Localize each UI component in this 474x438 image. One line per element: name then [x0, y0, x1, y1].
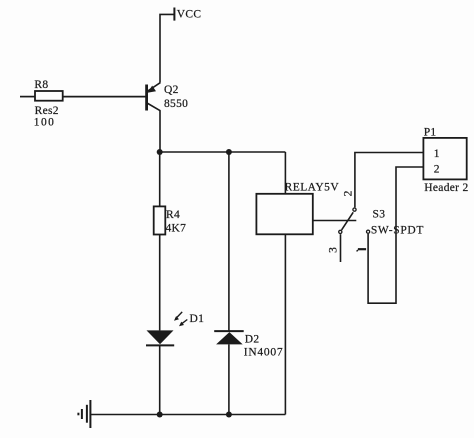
ground	[78, 400, 90, 428]
svg-text:Q2: Q2	[164, 84, 179, 96]
wire relay contact to switch	[313, 220, 357, 222]
header P1 Header 2	[423, 127, 468, 195]
node C junction dot	[157, 412, 163, 418]
svg-text:S3: S3	[373, 209, 386, 221]
wire header pin1 to switch pin2	[355, 153, 424, 208]
svg-text:4K7: 4K7	[166, 223, 187, 235]
relay RELAY5V	[256, 181, 339, 234]
wire R8 to Q2 base	[63, 96, 147, 98]
wire base stub left	[20, 96, 35, 98]
svg-text:Header 2: Header 2	[424, 182, 468, 194]
wire bottom rail	[90, 414, 285, 416]
node B junction dot	[226, 149, 232, 155]
svg-text:2: 2	[434, 164, 440, 176]
node A junction dot	[157, 149, 163, 155]
svg-text:D1: D1	[190, 313, 205, 325]
svg-text:2: 2	[343, 190, 355, 196]
wire switch pin3 stub	[340, 234, 342, 262]
wire D2 to bottom rail	[228, 344, 230, 414]
diode D2 IN4007	[214, 331, 283, 358]
node D junction dot	[226, 412, 232, 418]
svg-text:1: 1	[434, 148, 440, 160]
svg-text:P1: P1	[424, 127, 437, 139]
resistor R4 4K7	[154, 206, 187, 234]
svg-text:Res2: Res2	[35, 105, 59, 117]
switch S3 SW-SPDT	[339, 208, 424, 237]
svg-text:R8: R8	[34, 79, 48, 91]
resistor R8 Res2 100	[34, 79, 63, 129]
pin 1 label	[357, 249, 367, 251]
svg-text:8550: 8550	[164, 98, 188, 110]
LED D1	[146, 312, 204, 346]
wire D1 to bottom rail	[159, 345, 161, 414]
svg-text:SW-SPDT: SW-SPDT	[371, 225, 424, 237]
wire switch pin1 to header pin2	[368, 167, 423, 303]
pin 2 label	[343, 190, 355, 196]
pin 3 label	[327, 247, 339, 253]
wire VCC to Q2 emitter	[160, 14, 174, 82]
wire relay coil bottom to rail	[284, 234, 286, 414]
wire rail to relay coil top	[284, 152, 286, 194]
wire node A to R4	[159, 152, 161, 206]
power symbol VCC	[174, 8, 201, 21]
wire node B to D2	[228, 152, 230, 331]
svg-text:VCC: VCC	[177, 9, 202, 21]
wire top rail	[160, 151, 286, 153]
svg-text:RELAY5V: RELAY5V	[285, 181, 340, 193]
wire R4 to D1	[159, 235, 161, 331]
svg-text:D2: D2	[245, 333, 260, 345]
svg-text:100: 100	[34, 117, 55, 129]
transistor Q2 8550	[147, 83, 189, 111]
svg-text:R4: R4	[166, 209, 180, 221]
svg-text:IN4007: IN4007	[244, 346, 284, 358]
svg-text:3: 3	[327, 247, 339, 253]
wire Q2 collector to node A	[159, 111, 161, 153]
